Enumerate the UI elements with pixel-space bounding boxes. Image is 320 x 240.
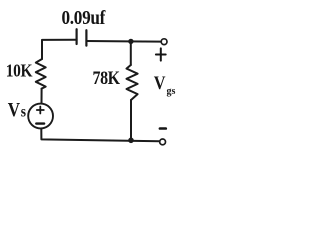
svg-text:78K: 78K — [93, 68, 121, 88]
svg-text:s: s — [21, 104, 27, 121]
svg-text:0.09uf: 0.09uf — [62, 7, 107, 29]
svg-text:V: V — [8, 99, 21, 120]
svg-text:V: V — [154, 72, 166, 93]
svg-text:gs: gs — [167, 86, 176, 98]
svg-text:10K: 10K — [6, 60, 33, 80]
